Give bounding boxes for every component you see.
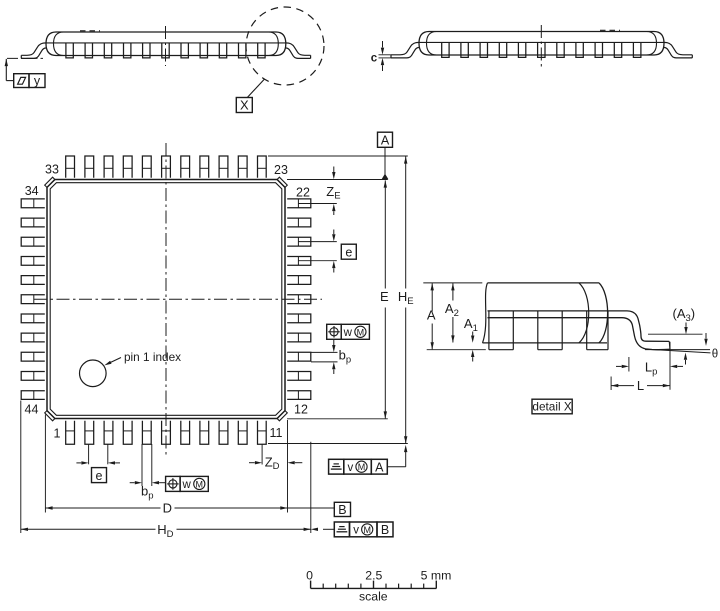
svg-text:e: e: [96, 469, 103, 483]
top view: left column of pins (34..44): [21, 199, 45, 400]
svg-text:θ: θ: [712, 349, 718, 361]
extension line: bottom pin tips: [268, 443, 408, 445]
pin 31: [104, 156, 113, 178]
svg-text:D: D: [163, 501, 172, 516]
svg-text:B: B: [338, 503, 346, 517]
pin 4: [123, 421, 132, 445]
extension lines from pin 2 and pin 3 centres: [89, 444, 108, 464]
pin number labels: [25, 162, 310, 440]
e label box (right): [341, 244, 356, 260]
feature frame: position tolerance w M (right side): [327, 324, 370, 339]
datum A box with leader triangle: [378, 132, 393, 179]
dimension L (lead length): [611, 377, 670, 394]
pin 1: [66, 421, 75, 445]
extension lines: pin 5 edges (bp bottom): [142, 444, 152, 486]
side view TL: vertical centerline: [165, 26, 167, 66]
pin 1 index circle: [80, 360, 107, 387]
svg-text:B: B: [381, 523, 389, 537]
side view TR: 11 leads in front of body: [442, 42, 641, 57]
pin 2: [85, 421, 94, 445]
pin 18: [287, 276, 311, 285]
svg-text:pin 1 index: pin 1 index: [124, 350, 181, 364]
pin 17: [287, 295, 311, 304]
top view: corner chamfer bands: [45, 177, 288, 421]
pin 39: [21, 295, 45, 304]
pin 30: [123, 156, 132, 178]
pin 21: [287, 218, 311, 227]
pin 33: [66, 156, 75, 178]
pin 40: [21, 314, 45, 323]
svg-text:L: L: [637, 378, 644, 393]
svg-text:X: X: [240, 98, 249, 113]
side view TL: right gull-wing lead: [286, 43, 311, 59]
dimension A (overall height): [427, 283, 436, 349]
svg-text:34: 34: [25, 184, 39, 198]
dimension bp (right): [332, 348, 351, 375]
pin 35: [21, 218, 45, 227]
side view TR: right gull-wing lead: [664, 42, 692, 58]
svg-text:detail X: detail X: [532, 399, 571, 413]
dimension HD (overall incl. leads, horizontal): [21, 522, 311, 540]
detail X: sectioned gull-wing lead profile: [488, 311, 671, 350]
pin 1 index label and leader arrow: [104, 350, 181, 365]
dimension theta (lead foot angle): [645, 333, 718, 365]
pin 12: [287, 391, 311, 400]
pin 7: [181, 421, 190, 445]
svg-text:A: A: [427, 308, 436, 323]
side view TL: left gull-wing lead: [21, 43, 46, 59]
extension line: right pin tips down: [310, 442, 312, 533]
dimension E (vertical, body size): [380, 180, 389, 418]
svg-text:23: 23: [274, 163, 288, 177]
pin 41: [21, 333, 45, 342]
pin 14: [287, 352, 311, 361]
dimension e (bottom pin pitch) arrows: [76, 461, 120, 464]
svg-text:M: M: [358, 462, 366, 472]
datum B box: [334, 502, 350, 517]
dimension HE (vertical, overall incl. leads): [398, 156, 414, 443]
side view (top-right): package body seen from the side: [419, 30, 664, 55]
pin 3: [104, 421, 113, 445]
top view: right column of pins (22..12): [287, 199, 311, 400]
pin 42: [21, 352, 45, 361]
extension line: body top edge: [287, 179, 388, 181]
svg-text:22: 22: [296, 185, 310, 199]
feature frame: seating plane v M B: [311, 522, 393, 537]
svg-text:33: 33: [45, 162, 59, 176]
svg-text:y: y: [34, 74, 41, 88]
svg-text:v: v: [348, 462, 354, 474]
dimension bp (bottom): [130, 481, 166, 502]
extension line: top pin tips: [268, 155, 408, 157]
pin 37: [21, 257, 45, 266]
svg-text:0: 0: [306, 568, 313, 582]
dimension ZE: [326, 167, 340, 216]
pin 10: [238, 421, 247, 445]
detail X: seating plane extension line: [427, 349, 486, 351]
extension lines from pin 20 and pin 19 centres: [298, 242, 336, 261]
datum y feature frame with leader arrow to seating plane: [5, 59, 45, 88]
pin 6: [162, 421, 171, 445]
dimension D (body size, horizontal): [45, 501, 334, 516]
pin 36: [21, 237, 45, 246]
scale bar: [306, 568, 451, 603]
svg-text:5 mm: 5 mm: [421, 568, 452, 582]
svg-text:w: w: [182, 479, 192, 491]
svg-text:E: E: [380, 289, 389, 304]
side view TL: seating plane centerline: [7, 57, 46, 59]
pin 16: [287, 314, 311, 323]
pin 25: [219, 156, 228, 178]
top view: body inner outline (top surface): [50, 183, 282, 416]
detail X: near-side leads: [489, 311, 608, 350]
svg-text:w: w: [343, 327, 353, 339]
svg-text:A: A: [381, 134, 390, 148]
svg-text:44: 44: [25, 402, 39, 416]
extension line: body left edge down: [44, 415, 46, 513]
extension line: body bottom edge: [287, 418, 388, 420]
side view TR: left gull-wing lead: [391, 42, 419, 58]
detail circle X (dashed) around right lead: [246, 7, 324, 85]
svg-text:11: 11: [270, 426, 283, 440]
pin 15: [287, 333, 311, 342]
dimension c (lead thickness): [371, 41, 391, 71]
extension line: left pin tips down: [20, 401, 22, 534]
detail X: body section with break line: [483, 283, 608, 343]
pin 28: [162, 156, 171, 178]
detail X: body top extension line: [423, 282, 482, 284]
pin 5: [142, 421, 151, 445]
svg-text:M: M: [196, 479, 204, 489]
dimension A1 (standoff): [464, 316, 478, 362]
pin 19: [287, 257, 311, 266]
top view: bottom row of pins (1..11): [66, 421, 267, 445]
svg-text:v: v: [353, 525, 359, 537]
dimension A2 (body thickness): [445, 283, 459, 342]
pin 13: [287, 372, 311, 381]
pin 38: [21, 276, 45, 285]
feature frame: seating plane v M A: [329, 445, 408, 474]
extension line from pin 22 centre: [298, 203, 336, 205]
svg-text:M: M: [357, 327, 365, 337]
top view: vertical centerline: [165, 143, 167, 458]
svg-text:c: c: [371, 52, 378, 64]
pin 9: [219, 421, 228, 445]
X label box: [236, 98, 252, 113]
dimension Lp (foot length): [616, 342, 683, 390]
pin 8: [200, 421, 209, 445]
pin 44: [21, 391, 45, 400]
svg-text:1: 1: [54, 427, 61, 441]
feature frame: position tolerance w M (bottom): [166, 476, 209, 491]
pin 24: [238, 156, 247, 178]
pin 32: [85, 156, 94, 178]
leader from w frame down to pin edge: [332, 339, 335, 352]
svg-text:e: e: [345, 246, 352, 260]
side view (top-left): package body seen from the side: [46, 31, 286, 56]
top view: top row of pins (33..23): [66, 156, 267, 178]
pin 23: [258, 156, 267, 178]
pin 26: [200, 156, 209, 178]
svg-text:M: M: [363, 525, 371, 535]
top view: body outer outline with chamfered corners: [47, 180, 285, 419]
e label box (bottom): [92, 468, 107, 484]
pin 22: [287, 199, 311, 208]
svg-text:12: 12: [294, 402, 308, 416]
svg-text:A: A: [375, 460, 384, 474]
detail X label box: [532, 399, 572, 414]
side view TR: vertical centerline: [540, 25, 542, 68]
pin 29: [142, 156, 151, 178]
side view TL: 11 leads in front of body: [66, 43, 265, 58]
dimension e (right side pin pitch) arrows: [332, 230, 335, 273]
pin 43: [21, 372, 45, 381]
pin 11: [258, 421, 267, 445]
dimension ZD: [249, 455, 302, 473]
extension line: body right edge down: [287, 420, 289, 513]
pin 27: [181, 156, 190, 178]
extension lines: pin 14 edges (bp right): [311, 352, 338, 362]
svg-text:scale: scale: [359, 590, 388, 604]
leader line from circle to X label box: [247, 79, 264, 97]
dimension (A3) reference line and arrow: [648, 306, 703, 334]
pin 20: [287, 237, 311, 246]
svg-text:2.5: 2.5: [365, 568, 382, 582]
pin 34: [21, 199, 45, 208]
extension line from pin 11 centre: [261, 445, 263, 465]
top view: horizontal centerline: [34, 298, 322, 300]
